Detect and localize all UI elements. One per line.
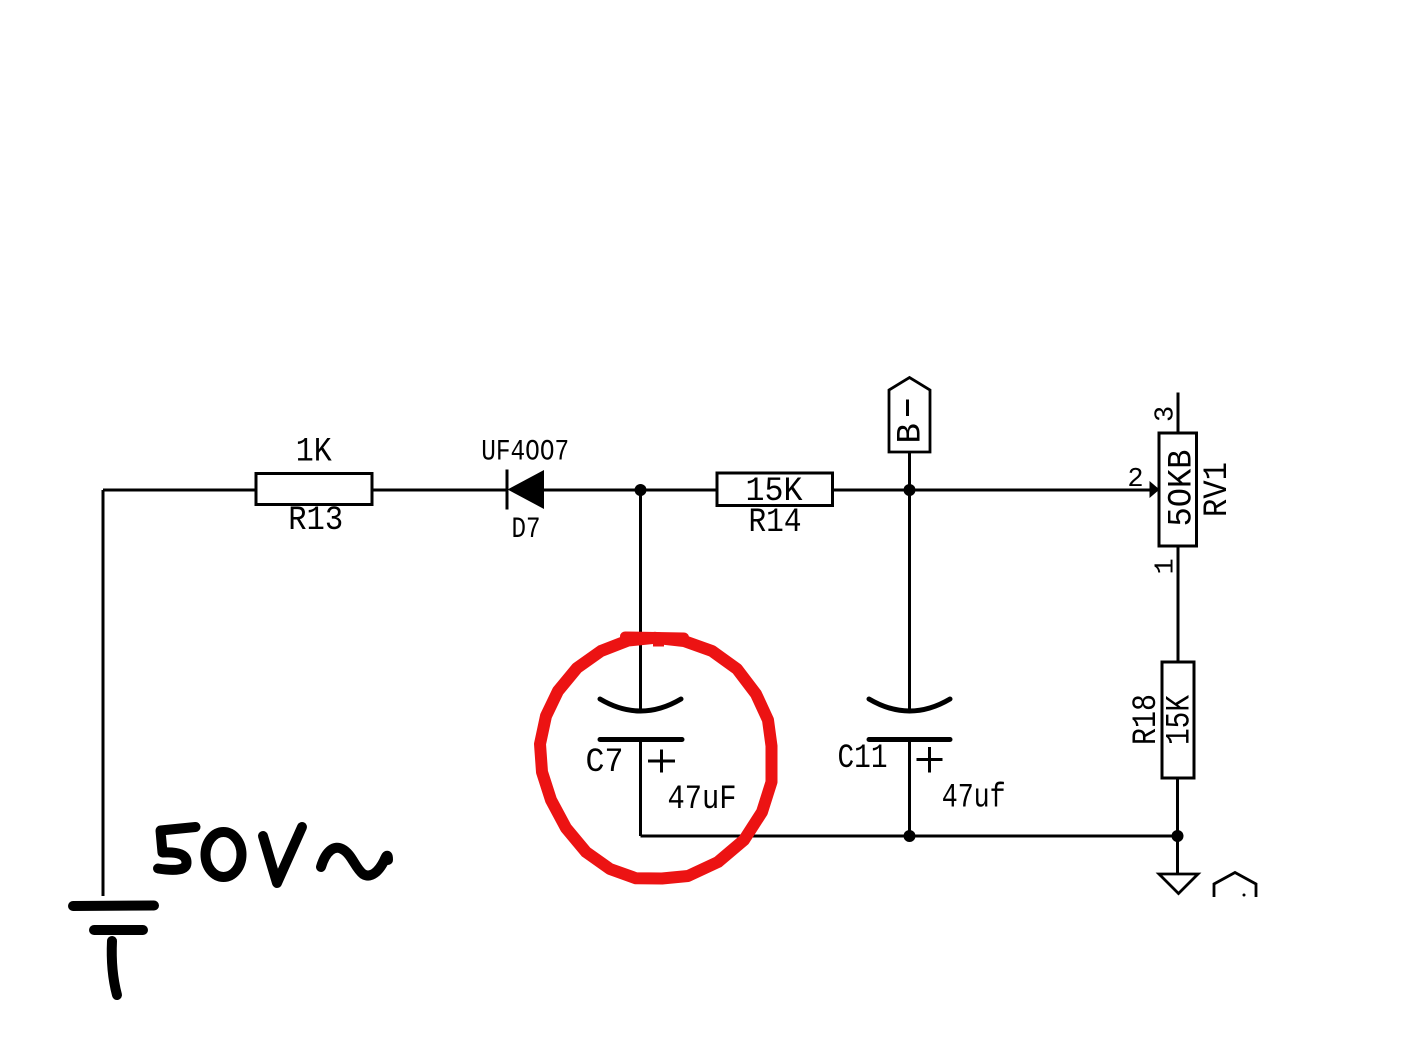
svg-text:3: 3 — [1152, 406, 1182, 422]
svg-text:R18: R18 — [1128, 694, 1166, 745]
svg-text:47uf: 47uf — [942, 780, 1006, 818]
svg-text:R13: R13 — [288, 502, 343, 540]
svg-text:R14: R14 — [749, 504, 802, 542]
svg-text:1: 1 — [1152, 558, 1182, 574]
svg-text:47uF: 47uF — [668, 781, 737, 819]
svg-text:B: B — [893, 423, 931, 443]
svg-text:C7: C7 — [586, 744, 624, 782]
svg-text:1K: 1K — [296, 434, 333, 472]
svg-text:RV1: RV1 — [1199, 462, 1237, 517]
svg-text:15K: 15K — [1162, 695, 1200, 745]
svg-text:5OKB: 5OKB — [1164, 450, 1202, 527]
svg-text:C11: C11 — [838, 740, 888, 778]
svg-text:2: 2 — [1127, 465, 1143, 495]
svg-text:D7: D7 — [512, 513, 541, 547]
svg-text:UF4OO7: UF4OO7 — [481, 436, 569, 470]
